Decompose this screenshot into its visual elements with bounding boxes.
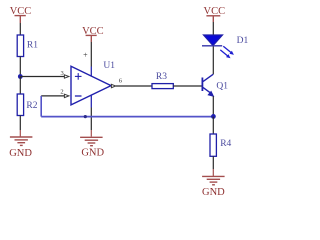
svg-text:R2: R2 — [26, 101, 37, 111]
op-amp U1 — [71, 66, 111, 105]
svg-text:+: + — [83, 50, 88, 59]
wire Q1 emitter to node B — [212, 96, 214, 116]
transistor Q1 base bar — [201, 78, 203, 92]
svg-text:U1: U1 — [103, 61, 115, 71]
resistor R3 — [152, 84, 173, 89]
junction mark on feedback wire — [84, 115, 87, 118]
svg-text:R3: R3 — [156, 72, 167, 82]
pin 2 wire — [41, 95, 65, 97]
wire R4 to GND3 — [212, 156, 214, 169]
svg-text:3: 3 — [61, 70, 64, 77]
pin 2 arrow — [64, 94, 69, 97]
output pin 6 arrow — [111, 84, 115, 87]
resistor R4 — [210, 134, 216, 156]
power VCC1 bar — [15, 16, 26, 23]
wire R3 to Q1 base — [173, 85, 202, 87]
svg-text:GND: GND — [81, 148, 104, 159]
feedback wire vertical to pin 2 — [40, 96, 42, 117]
pin 3 arrow — [64, 75, 69, 78]
svg-text:2: 2 — [60, 89, 63, 96]
wire U1 V- pin to GND2 — [90, 108, 92, 131]
svg-text:D1: D1 — [237, 36, 249, 46]
svg-text:R4: R4 — [220, 139, 231, 149]
LED D1 light arrows — [220, 46, 234, 58]
svg-text:R1: R1 — [27, 40, 38, 50]
LED D1 cathode bar — [202, 45, 222, 47]
feedback wire horizontal — [41, 116, 213, 118]
resistor R2 — [17, 94, 23, 116]
ground GND1 — [10, 137, 33, 145]
wire U1 output to R3 — [116, 85, 152, 87]
wire node B to R4 — [212, 117, 214, 134]
wire node A to U1 pin 3 — [20, 76, 65, 78]
U1 minus input symbol — [75, 95, 82, 97]
U1 plus input symbol — [75, 73, 82, 80]
wire R2 to GND1 — [19, 116, 21, 131]
U1 V+ pin segment — [90, 67, 92, 77]
wire R1 to node A — [19, 57, 21, 77]
resistor R1 — [17, 35, 23, 57]
power VCC2 bar — [86, 35, 97, 42]
ground GND2 — [80, 137, 103, 145]
wire VCC1 to R1 — [19, 23, 21, 35]
LED D1 triangle — [204, 35, 223, 46]
svg-text:Q1: Q1 — [216, 82, 228, 92]
wire VCC3 to D1 — [212, 22, 214, 35]
wire Q1 collector to D1 — [212, 46, 214, 74]
ground GND3 — [202, 176, 225, 184]
wire VCC2 to U1 V+ pin — [90, 42, 92, 67]
U1 V- pin segment — [90, 95, 92, 107]
transistor Q1 collector — [203, 74, 213, 81]
power VCC3 bar — [206, 16, 220, 22]
node A junction dot — [18, 74, 23, 79]
svg-text:GND: GND — [9, 148, 32, 159]
wire node A to R2 — [19, 77, 21, 95]
svg-text:GND: GND — [202, 187, 225, 198]
transistor Q1 emitter with arrow — [203, 87, 211, 93]
node B junction dot — [211, 114, 216, 119]
